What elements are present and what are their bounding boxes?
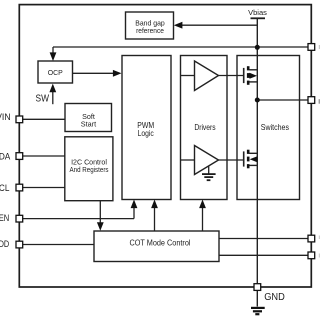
wire: Vbias to band gap reference with arrow <box>174 22 257 29</box>
clipped right-edge pin label fragments <box>319 99 320 104</box>
wire: high-side gate <box>219 75 244 77</box>
svg-text:I2C Control: I2C Control <box>71 160 107 167</box>
wire: VDD pin to COT Mode Control <box>23 244 94 246</box>
svg-text:SDA: SDA <box>0 152 11 163</box>
buffer amplifier: high-side driver <box>181 61 219 91</box>
block: Switches <box>237 56 300 200</box>
pin right 4 <box>308 252 315 259</box>
svg-text:OCP: OCP <box>48 68 63 77</box>
svg-text:Logic: Logic <box>138 128 155 138</box>
ground symbol under low-side driver <box>202 166 216 180</box>
block: PWM Logic <box>122 56 171 200</box>
svg-text:Start: Start <box>81 120 97 129</box>
wire: VIN pin to Soft Start <box>23 118 65 120</box>
wire: rail down into OCP with arrow <box>50 47 57 61</box>
pin GND (bottom) <box>254 284 261 291</box>
wire: COT to right pin 1 <box>219 238 311 240</box>
block: Drivers <box>181 56 228 200</box>
wire: EN pin to PWM Logic with up arrow <box>23 200 138 219</box>
ground symbol (main GND) <box>251 308 265 314</box>
wire: I2C down to COT Mode Control with down arrow <box>97 201 104 231</box>
svg-text:Vbias: Vbias <box>248 8 267 17</box>
pin VIN <box>16 116 23 123</box>
wire: OCP to PWM Logic with arrow <box>73 70 122 77</box>
svg-text:And Registers: And Registers <box>70 167 109 174</box>
net stub SW into OCP bottom with arrow <box>49 84 56 105</box>
wire: SCL pin to I2C <box>23 187 65 189</box>
wire: COT to PWM Logic with up arrow <box>151 200 158 232</box>
svg-text:Switches: Switches <box>261 122 289 132</box>
wire: SW switch node to right pin <box>257 99 310 101</box>
svg-text:VIN: VIN <box>0 112 11 123</box>
pin SCL <box>16 184 23 191</box>
pin SDA <box>16 153 23 160</box>
block: I2C Control And Registers <box>65 137 113 201</box>
pin VDD <box>16 241 23 248</box>
block: Soft Start <box>65 104 112 132</box>
junction: switch midpoint node <box>255 98 260 103</box>
wire: COT to Drivers with up arrow <box>199 200 206 232</box>
pin EN <box>16 215 23 222</box>
svg-text:COT Mode Control: COT Mode Control <box>130 237 191 247</box>
pin SW (right) <box>308 97 315 104</box>
block: band gap reference <box>126 12 174 39</box>
block: COT Mode Control <box>94 231 219 262</box>
pin top-right (PVIN) <box>308 44 315 51</box>
pin right 3 <box>308 235 315 242</box>
wire: COT to right pin 2 <box>219 254 311 256</box>
svg-text:VDD: VDD <box>0 239 9 250</box>
wire: low-side gate <box>219 159 244 161</box>
svg-text:SW: SW <box>36 93 50 105</box>
svg-text:reference: reference <box>136 26 164 35</box>
svg-text:GND: GND <box>264 292 285 303</box>
svg-text:Drivers: Drivers <box>194 122 215 132</box>
buffer amplifier: low-side driver <box>181 146 219 175</box>
wire: VIN top rail y=47 (pin to OCP and switches) <box>53 46 311 48</box>
transistor Q1 high-side PMOS switch <box>244 66 258 85</box>
block: OCP <box>38 61 73 83</box>
Vbias terminal <box>248 8 267 18</box>
wire: SDA pin to I2C <box>23 155 65 157</box>
svg-text:EN: EN <box>0 213 9 224</box>
wire: Vbias vertical rail x=257 (Vbias to GND through switches) <box>256 18 258 306</box>
junction: rail / Vbias line <box>255 45 260 50</box>
svg-text:SCL: SCL <box>0 183 9 194</box>
transistor Q2 low-side NMOS switch <box>244 150 258 169</box>
